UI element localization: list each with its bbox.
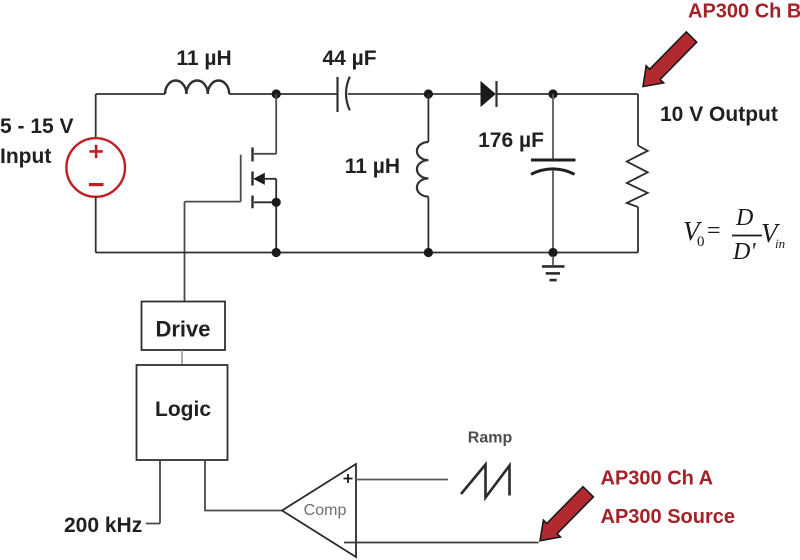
svg-text:Input: Input bbox=[0, 145, 51, 168]
transistor Q1 gate bar bbox=[240, 155, 242, 202]
voltage source V1 plus sign bbox=[89, 145, 102, 158]
wire top rail from L1 to C1 bbox=[229, 93, 336, 95]
formula V0 = D/D' Vin bbox=[683, 205, 785, 265]
wire gate lead horizontal bbox=[185, 201, 241, 203]
wire Drive to Logic connector bbox=[181, 350, 183, 365]
svg-text:AP300 Ch A: AP300 Ch A bbox=[601, 468, 714, 490]
svg-text:44 µF: 44 µF bbox=[322, 47, 376, 70]
svg-text:Logic: Logic bbox=[155, 398, 211, 421]
wire Logic to 200 kHz bbox=[146, 460, 160, 524]
node bottom rail junction at C2 / ground bbox=[548, 248, 557, 257]
svg-text:AP300 Source: AP300 Source bbox=[601, 506, 736, 528]
wire output branch top bbox=[637, 94, 639, 146]
svg-text:Drive: Drive bbox=[155, 317, 210, 342]
capacitor C2 176 uF bbox=[552, 94, 554, 159]
diode D1 bbox=[481, 82, 495, 106]
wire top rail from C1 to diode bbox=[348, 93, 481, 95]
arrow AP300 Ch B bbox=[643, 32, 697, 87]
svg-text:5 - 15 V: 5 - 15 V bbox=[0, 115, 74, 138]
voltage source V1 5-15V circle bbox=[95, 94, 97, 138]
wire Q1 body/source vertical to rail bbox=[275, 179, 277, 253]
ramp sawtooth waveform bbox=[461, 465, 510, 498]
box Drive bbox=[142, 302, 226, 351]
node bottom rail junction at L2 bbox=[424, 248, 433, 257]
transistor Q1 body arrow bbox=[253, 173, 265, 185]
arrow AP300 Ch A / Source bbox=[540, 487, 593, 541]
box Logic bbox=[137, 365, 228, 460]
svg-text:D: D bbox=[735, 205, 753, 231]
wire comparator minus input bbox=[344, 542, 539, 544]
wire bottom rail bbox=[96, 252, 638, 254]
wire top rail from diode to output corner bbox=[497, 93, 639, 95]
resistor R1 load bbox=[627, 146, 648, 208]
wire gate drive vertical to Drive box bbox=[184, 202, 186, 302]
node junction top of Q1 drain / C1 bbox=[272, 89, 281, 98]
svg-text:11 µH: 11 µH bbox=[176, 47, 231, 70]
node bottom rail junction at Q1 source bbox=[272, 248, 281, 257]
svg-text:AP300 Ch B: AP300 Ch B bbox=[688, 1, 800, 23]
svg-text:176 µF: 176 µF bbox=[478, 129, 544, 152]
comparator plus input sign bbox=[344, 474, 353, 483]
wire Q1 drain vertical bbox=[275, 94, 277, 154]
wire comparator plus input bbox=[356, 479, 448, 481]
inductor L1 11 uH bbox=[165, 80, 229, 94]
capacitor C1 44 uF bbox=[336, 77, 338, 112]
wire Logic to comparator bbox=[205, 460, 282, 511]
wire Q1 drain lead bbox=[254, 153, 276, 155]
wire Q1 source lead bbox=[254, 201, 276, 203]
voltage source V1 minus sign bbox=[89, 183, 104, 186]
op-amp U1 comparator bbox=[282, 464, 356, 557]
node junction top of C2 bbox=[548, 89, 557, 98]
node junction top of L2 bbox=[424, 89, 433, 98]
inductor L2 11 uH vertical bbox=[427, 94, 429, 142]
svg-text:Ramp: Ramp bbox=[468, 430, 513, 447]
svg-text:Comp: Comp bbox=[304, 502, 347, 519]
node Q1 source junction bbox=[272, 198, 281, 207]
wire top rail left segment bbox=[96, 93, 165, 95]
ground symbol bbox=[552, 256, 554, 265]
svg-text:11 µH: 11 µH bbox=[345, 155, 400, 178]
svg-text:10 V Output: 10 V Output bbox=[660, 103, 778, 126]
wire output branch bottom bbox=[637, 207, 639, 253]
svg-text:D': D' bbox=[732, 239, 756, 265]
transistor Q1 channel bars bbox=[251, 147, 253, 161]
svg-text:200 kHz: 200 kHz bbox=[64, 514, 142, 537]
svg-text:in: in bbox=[775, 236, 785, 251]
svg-text:=: = bbox=[707, 218, 721, 244]
svg-text:0: 0 bbox=[697, 234, 705, 250]
